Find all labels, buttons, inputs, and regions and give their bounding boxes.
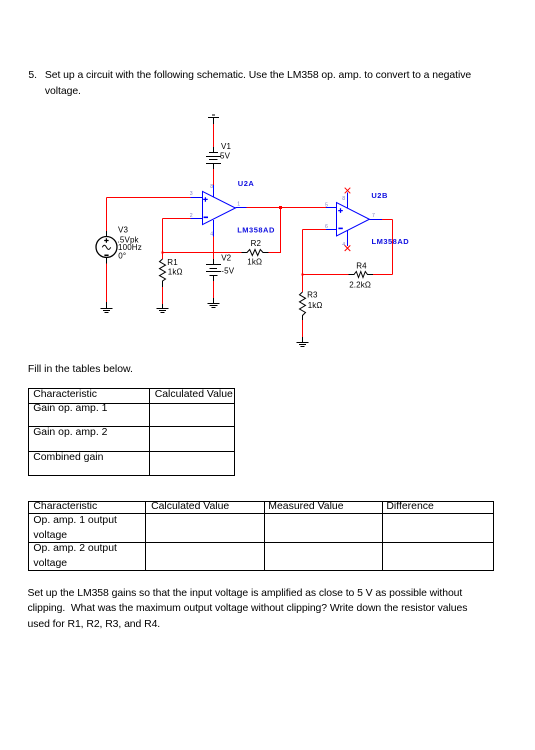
V3 minus: [104, 255, 108, 257]
wire: U2B output red: [382, 219, 393, 221]
svg-text:6: 6: [325, 224, 328, 230]
wire: pin6 horizontal: [303, 229, 327, 231]
table 1 text: [33, 390, 97, 400]
resistor R3 body: [300, 292, 306, 320]
V3 plus: [104, 238, 108, 242]
U2B minus: [338, 228, 342, 230]
svg-text:LM358AD: LM358AD: [237, 225, 275, 234]
svg-text:1: 1: [237, 202, 240, 208]
wire: R3/R4 node vertical: [302, 230, 304, 293]
wire: V3 bottom to ground: [106, 264, 108, 303]
svg-text:2.2kΩ: 2.2kΩ: [349, 281, 371, 290]
wire: pin4 to V2 junction: [213, 237, 215, 260]
ground R3: [302, 337, 304, 343]
wire: R1 top to pin2 horizontal: [163, 218, 191, 220]
svg-text:5: 5: [325, 202, 328, 208]
junction dot A (U2A out): [279, 206, 282, 209]
svg-text:7: 7: [372, 213, 375, 219]
svg-text:U2A: U2A: [238, 179, 255, 188]
svg-text:2: 2: [190, 213, 193, 219]
paragraph: question number: [28, 68, 37, 84]
resistor R4 body: [349, 272, 374, 278]
wire: R4 line left red: [303, 274, 349, 276]
wire: R4 line right red: [373, 274, 393, 276]
ground V3: [106, 302, 108, 309]
junction dot B (R1 top): [162, 252, 164, 254]
op-amp U2B triangle: [337, 203, 370, 236]
wire: V2 bottom to ground: [213, 281, 215, 298]
wire: R1 bottom to ground: [162, 287, 164, 304]
ground R1: [162, 304, 164, 309]
wire: R1 vertical to pin2 line: [162, 219, 164, 253]
svg-text:-5V: -5V: [221, 266, 234, 275]
V3 sine: [102, 245, 110, 249]
svg-text:8: 8: [210, 184, 213, 190]
no-connect X top: [345, 188, 351, 194]
svg-text:1kΩ: 1kΩ: [308, 301, 323, 310]
wire: R2 right lead red: [269, 252, 282, 254]
svg-text:LM358AD: LM358AD: [372, 237, 410, 246]
battery V2: [213, 259, 215, 264]
svg-text:R4: R4: [356, 262, 367, 271]
ground V2: [213, 298, 215, 304]
svg-text:V2: V2: [221, 254, 231, 263]
svg-text:8: 8: [342, 196, 345, 202]
svg-text:1kΩ: 1kΩ: [247, 258, 262, 267]
paragraph: question text: [45, 68, 471, 99]
resistor R2 body: [242, 250, 269, 256]
wire: V3 top vertical: [106, 198, 108, 232]
op-amp U2A triangle: [203, 191, 236, 224]
table 1 frame: [28, 388, 235, 476]
table 2 text: [33, 502, 97, 512]
U2B plus: [338, 208, 343, 213]
no-connect X bottom: [345, 245, 351, 251]
V3 stems: [106, 231, 108, 237]
svg-text:5V: 5V: [220, 152, 231, 161]
svg-text:V3: V3: [118, 226, 128, 235]
wire: top ground to V1: [213, 124, 215, 147]
svg-text:3: 3: [190, 191, 193, 197]
svg-text:4: 4: [210, 231, 213, 237]
svg-text:R2: R2: [251, 239, 262, 248]
svg-text:R1: R1: [167, 258, 178, 267]
op-amp U2A pin stubs: [191, 197, 203, 199]
svg-text:1kΩ: 1kΩ: [168, 267, 183, 276]
paragraph: bottom: [28, 586, 468, 633]
U2A plus: [203, 197, 208, 202]
wire: junction down to R2 right: [280, 208, 282, 253]
paragraph: fill in tables: [28, 365, 133, 375]
svg-text:4: 4: [342, 242, 345, 248]
wire: V1 to pin8: [213, 169, 215, 185]
wire: V3 top to pin3 horizontal: [107, 197, 191, 199]
svg-text:V1: V1: [221, 142, 231, 151]
battery V1: [213, 147, 215, 152]
svg-text:R3: R3: [307, 290, 318, 299]
V3 source circle: [96, 237, 117, 258]
wire: lower horizontal R1-V2-R2: [163, 252, 242, 254]
wire: U2A output horizontal: [247, 207, 327, 209]
resistor R1 body: [160, 259, 166, 287]
wire: R1 top red lead: [162, 253, 164, 260]
U2A minus: [204, 217, 208, 219]
junction dot D (R3/R4 node): [302, 274, 304, 276]
wire: U2B output down vertical: [392, 220, 394, 275]
op-amp U2B pin stubs: [326, 207, 337, 209]
ground top (flipped): [212, 114, 215, 116]
svg-text:0°: 0°: [118, 252, 126, 261]
wire: R3 bottom to ground: [302, 320, 304, 337]
svg-text:U2B: U2B: [371, 191, 388, 200]
table 2 frame: [28, 501, 494, 571]
